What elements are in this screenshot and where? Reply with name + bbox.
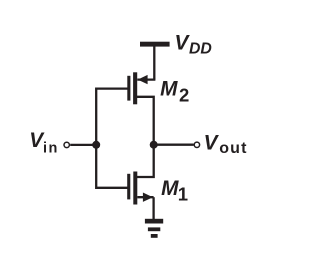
M2 gate bar xyxy=(127,76,130,101)
wire Vin to gate node xyxy=(70,144,96,146)
wire output node to Vout terminal xyxy=(154,144,194,146)
svg-text:DD: DD xyxy=(189,41,212,58)
M1 source arrow xyxy=(143,193,153,202)
M2 channel bar xyxy=(133,72,137,104)
M2 source arrow xyxy=(138,75,148,84)
Vout terminal circle xyxy=(194,142,199,147)
wire gate node: M2 gate, down, M1 gate xyxy=(96,89,127,188)
svg-text:2: 2 xyxy=(179,85,189,106)
svg-text:M: M xyxy=(161,177,179,200)
transistor M1 (NMOS) xyxy=(127,172,153,205)
svg-text:V: V xyxy=(204,131,220,154)
M1 channel bar xyxy=(133,172,137,205)
svg-text:in: in xyxy=(43,140,59,156)
transistor M2 (PMOS) xyxy=(127,72,155,104)
svg-text:M: M xyxy=(160,77,178,100)
junction dot on gate line (node Vin) xyxy=(92,141,100,149)
M1 gate bar xyxy=(127,174,130,200)
svg-text:1: 1 xyxy=(178,183,188,204)
wire M1 source line xyxy=(137,196,153,198)
wire VDD bar to M2 source xyxy=(153,46,155,79)
wire M2 source line xyxy=(137,78,155,80)
junction dot on output line (node Vout) xyxy=(150,141,158,149)
Vin terminal circle xyxy=(64,142,69,147)
wire M2 drain to output node to M1 drain xyxy=(137,97,154,177)
wire M1 source to ground xyxy=(152,197,154,219)
VDD supply bar xyxy=(140,42,170,47)
svg-text:out: out xyxy=(219,140,247,157)
ground xyxy=(145,219,163,238)
